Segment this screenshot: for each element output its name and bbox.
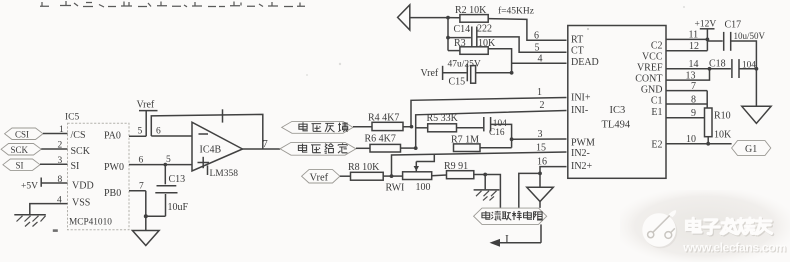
svg-text:C15: C15 <box>449 76 466 87</box>
svg-text:C2: C2 <box>651 41 663 52</box>
wire TL494 pin 8 C1 <box>666 94 707 105</box>
svg-text:2: 2 <box>540 100 545 111</box>
svg-text:G1: G1 <box>745 144 757 155</box>
svg-text:Vref: Vref <box>421 68 439 79</box>
svg-text:RWI: RWI <box>386 183 405 194</box>
resistor R2 10K (oscillator RT) <box>448 5 534 22</box>
resistor R10 10K (vertical) <box>705 108 733 146</box>
svg-text:7: 7 <box>263 139 268 150</box>
capacitor C15 47u/25V electrolytic (soft-start) <box>448 59 514 87</box>
svg-text:100: 100 <box>416 182 431 193</box>
svg-text:IC4B: IC4B <box>200 144 222 155</box>
svg-text:C1: C1 <box>651 96 663 107</box>
power +5V to IC5 pin 8 VDD <box>21 175 68 192</box>
wire TL494 pin 13 CONT tied to VREF <box>666 67 711 82</box>
wire TL494 pin 16 IN2+ down to current sampling resistor <box>519 157 567 208</box>
svg-text:INI+: INI+ <box>571 92 591 103</box>
wire to TL494 pin 3 PWM/FB <box>510 129 567 141</box>
svg-text:8: 8 <box>58 175 63 185</box>
svg-text:VDD: VDD <box>72 181 94 192</box>
svg-text:1: 1 <box>59 125 64 135</box>
svg-text:10: 10 <box>686 134 696 145</box>
svg-text:5: 5 <box>166 155 171 165</box>
svg-text:/CS: /CS <box>71 130 86 141</box>
power flag Vref (left, feeds PA0) <box>137 100 158 137</box>
wire TL494 pin 11 C2 to +12V <box>666 30 709 42</box>
node G1 gate drive (net label hexagon) <box>732 141 771 156</box>
clipped caption text fragments at top edge <box>40 1 305 7</box>
svg-text:C16: C16 <box>489 128 505 138</box>
svg-text:SI: SI <box>71 161 80 172</box>
svg-text:LM358: LM358 <box>210 169 239 179</box>
resistor R7 1M (feedback) <box>451 135 512 152</box>
wire R9 node down to current sampling resistor label <box>485 175 500 208</box>
svg-text:CONT: CONT <box>635 74 662 85</box>
svg-text:INI-: INI- <box>571 105 588 116</box>
node junction on R2 rail <box>446 16 450 20</box>
svg-text:IN2-: IN2- <box>571 148 590 159</box>
current direction arrow I <box>490 224 542 246</box>
svg-text:15: 15 <box>536 143 546 154</box>
svg-text:VCC: VCC <box>642 52 663 63</box>
svg-text:GND: GND <box>641 85 663 96</box>
svg-text:PW0: PW0 <box>104 162 124 173</box>
wire SI to IC5 pin 3 <box>40 156 68 166</box>
wire junction R8/RW1 riser to TL494 pin 15 IN2- line <box>390 143 567 178</box>
resistor R4 4K7 (feedback input) <box>353 112 403 130</box>
svg-text:6: 6 <box>139 155 144 165</box>
svg-text:7: 7 <box>691 81 696 92</box>
IC chip IC3 TL494 PWM controller box <box>568 26 666 179</box>
svg-text:VSS: VSS <box>72 198 90 209</box>
node Vref (net label hexagon, lower) <box>302 170 340 184</box>
svg-text:IN2+: IN2+ <box>571 161 593 172</box>
svg-text:CT: CT <box>571 46 584 57</box>
svg-text:www.elecfans.com: www.elecfans.com <box>682 240 786 254</box>
wire IC5 pin 4 VSS to ground <box>30 195 68 214</box>
svg-text:Vref: Vref <box>310 172 329 183</box>
ground (hatched) at VSS <box>14 215 46 227</box>
svg-text:SCK: SCK <box>71 146 91 157</box>
svg-text:PWM: PWM <box>571 137 595 148</box>
watermark text 电子发烧友 (white with gray emboss) <box>688 219 773 235</box>
resistor R3 10K (dead-time) <box>448 38 512 73</box>
wire TL494 pin 12 VCC to +12V <box>666 41 707 52</box>
svg-text:R6 4K7: R6 4K7 <box>365 134 396 145</box>
potentiometer RW1 100 <box>386 154 447 194</box>
svg-text:10uF: 10uF <box>168 202 189 213</box>
wire TL494 pin 9 E1 <box>666 108 705 119</box>
svg-text:SI: SI <box>16 161 24 171</box>
capacitor C17 10u/50V (supply decoupling) <box>707 20 765 107</box>
svg-text:6: 6 <box>534 31 539 42</box>
svg-text:C13: C13 <box>169 174 186 185</box>
node IN1- junction and riser to TL494 pin 2 <box>414 100 567 150</box>
op-amp V- power stub <box>207 165 209 175</box>
wire R2 to TL494 pin 6 RT <box>488 19 566 42</box>
svg-text:PB0: PB0 <box>104 188 121 199</box>
wire to TL494 pin 4 DEAD <box>512 53 567 64</box>
capacitor C14 222 (oscillator CT) <box>448 24 492 47</box>
ground (open triangle) right side <box>742 106 771 123</box>
node 电压反馈 voltage feedback (net label hexagon) <box>282 121 353 133</box>
svg-text:I: I <box>505 233 509 245</box>
svg-text:8: 8 <box>691 94 696 105</box>
svg-text:2: 2 <box>58 140 63 150</box>
svg-text:R5 33K: R5 33K <box>427 113 459 124</box>
svg-text:14: 14 <box>689 59 699 70</box>
capacitor C13 10uF on PW0 node <box>155 163 188 216</box>
wire CSI to IC5 pin 1 <box>43 125 68 135</box>
svg-text:6: 6 <box>156 127 161 137</box>
svg-text:DEAD: DEAD <box>571 57 599 68</box>
capacitor C16 104 (compensation) <box>484 117 512 139</box>
svg-text:C18: C18 <box>709 59 726 70</box>
svg-text:7: 7 <box>139 181 144 191</box>
ground (hatched) at R9 / current sense <box>474 173 500 201</box>
connection arrow (open triangle) into current sense node <box>527 187 554 208</box>
wire IC5 pin 5 PA0 to Vref <box>129 126 146 136</box>
scan specks <box>53 6 685 232</box>
op-amp minus sign <box>199 133 209 135</box>
svg-text:RT: RT <box>571 34 583 45</box>
wire IC5 pin 6 PW0 to op-amp pin 5 non-inverting input <box>129 155 192 166</box>
wire TL494 pin 14 VREF <box>666 59 731 70</box>
svg-text:PA0: PA0 <box>104 131 121 142</box>
wire op-amp output pin 7 to node 电压给定 <box>243 139 281 150</box>
svg-text:222: 222 <box>477 24 492 35</box>
svg-text:+5V: +5V <box>21 182 38 192</box>
resistor R5 33K (compensation) <box>416 113 483 132</box>
svg-text:SCK: SCK <box>11 145 29 155</box>
wire TL494 pin 10 E2 to G1 <box>666 134 732 145</box>
svg-text:E2: E2 <box>651 139 662 150</box>
node CSI (net label hexagon) <box>5 128 43 140</box>
watermark logo circle (elecfans) <box>642 210 677 248</box>
svg-text:TL494: TL494 <box>602 120 631 131</box>
svg-text:4: 4 <box>57 195 62 205</box>
svg-text:E1: E1 <box>651 107 662 118</box>
svg-text:9: 9 <box>691 108 696 119</box>
svg-text:3: 3 <box>538 129 543 140</box>
wire feedback loop output to inverting input pin 6 <box>151 114 262 148</box>
node 电流取样电阻 current sampling resistor (net label hexagon) <box>474 208 547 224</box>
svg-text:CSI: CSI <box>15 130 29 140</box>
svg-text:VREF: VREF <box>637 63 663 74</box>
connection arrow (open, pointing left) on RT/CT network <box>398 5 448 30</box>
wire R4 up to TL494 pin 1 IN1+ <box>403 87 567 128</box>
svg-text:MCP41010: MCP41010 <box>69 218 112 228</box>
op-amp V+ power stub <box>222 109 224 122</box>
svg-text:C17: C17 <box>725 20 742 31</box>
power +12V rail <box>695 20 717 51</box>
wire TL494 pin 7 GND to R10 <box>666 81 707 108</box>
wire IC5 pin 7 PB0 down to ground node <box>129 181 166 230</box>
svg-text:Vref: Vref <box>137 100 155 111</box>
svg-text:4: 4 <box>538 53 543 64</box>
node SCK (net label hexagon) <box>1 144 41 156</box>
IC chip U/IC5 MCP41010 digital potentiometer box <box>65 113 129 230</box>
svg-text:R10: R10 <box>714 110 731 121</box>
svg-text:10u/50V: 10u/50V <box>734 31 766 41</box>
node 电压给定 voltage setpoint (net label hexagon) <box>280 142 356 155</box>
wire C14 to TL494 pin 5 CT <box>477 37 567 54</box>
resistor R8 10K <box>340 162 392 180</box>
svg-text:IC3: IC3 <box>610 105 626 116</box>
svg-text:IC5: IC5 <box>65 113 80 123</box>
svg-text:f=45KHz: f=45KHz <box>498 6 534 17</box>
svg-text:13: 13 <box>686 71 696 82</box>
capacitor C18 104 <box>709 59 758 78</box>
resistor R9 91 <box>444 161 485 179</box>
op-amp IC4B LM358 triangle <box>192 122 243 179</box>
power flag Vref (soft-start source) <box>421 66 467 80</box>
op-amp plus sign <box>198 157 210 168</box>
svg-text:1: 1 <box>537 87 542 98</box>
svg-text:11: 11 <box>689 30 699 41</box>
svg-text:C14: C14 <box>454 24 471 35</box>
svg-text:12: 12 <box>689 41 699 52</box>
svg-text:16: 16 <box>537 157 547 168</box>
svg-text:10K: 10K <box>714 129 732 140</box>
svg-text:3: 3 <box>58 156 63 166</box>
node SI (net label hexagon) <box>3 159 40 171</box>
svg-text:5: 5 <box>535 43 540 54</box>
wire SCK to IC5 pin 2 <box>41 140 67 150</box>
resistor R6 4K7 (setpoint input) <box>356 134 416 152</box>
ground (open triangle) below C13/PB0 <box>132 231 159 246</box>
wire rail down the left column <box>446 18 450 51</box>
svg-text:5: 5 <box>138 126 143 136</box>
